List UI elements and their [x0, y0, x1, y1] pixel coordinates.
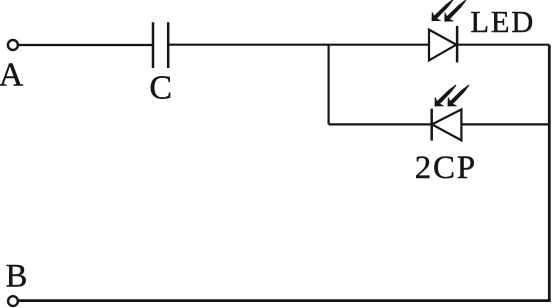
LED D1 cathode bar	[456, 26, 459, 63]
2CP light arrow 2	[444, 81, 473, 110]
wire LED cathode to right rail	[457, 44, 550, 46]
wire A to capacitor	[19, 44, 152, 46]
LED light arrow 2	[441, 0, 470, 25]
LED light arrow 1	[428, 0, 457, 25]
diode 2CP triangle	[432, 109, 461, 140]
wire bottom rail	[19, 299, 551, 302]
wire right rail vertical	[548, 45, 551, 301]
terminal B	[8, 296, 18, 306]
diode 2CP cathode bar	[430, 109, 433, 141]
2CP light arrow 1	[431, 81, 460, 110]
wire junction to diode 2CP cathode	[329, 123, 431, 125]
svg-text:B: B	[6, 258, 28, 294]
svg-text:C: C	[149, 70, 172, 107]
svg-text:2CP: 2CP	[415, 150, 477, 186]
svg-text:A: A	[0, 57, 24, 94]
terminal A	[8, 40, 18, 50]
node junction vertical wire	[328, 45, 330, 125]
wire diode 2CP anode to right rail	[461, 123, 549, 125]
svg-text:LED: LED	[470, 5, 535, 39]
LED D1 triangle	[429, 30, 456, 61]
wire capacitor to LED anode	[168, 44, 429, 46]
capacitor C1 right plate	[167, 22, 170, 68]
capacitor C1 left plate	[152, 22, 155, 68]
